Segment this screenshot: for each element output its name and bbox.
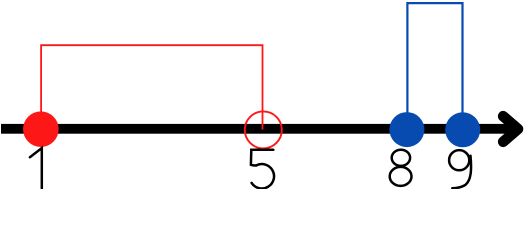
arrowhead <box>503 116 518 142</box>
label 8 <box>390 150 412 186</box>
filled red point at 1 <box>23 111 59 147</box>
filled blue point at 9 <box>445 112 480 147</box>
number line <box>1 124 514 134</box>
label 5 <box>251 150 274 189</box>
label 9 <box>449 150 471 188</box>
label 1 <box>30 148 42 189</box>
filled blue point at 8 <box>389 112 424 147</box>
blue interval bracket from 8 to 9 <box>407 3 462 128</box>
red interval bracket from 1 to 5 <box>41 45 262 129</box>
open circle at 5 <box>245 111 282 148</box>
